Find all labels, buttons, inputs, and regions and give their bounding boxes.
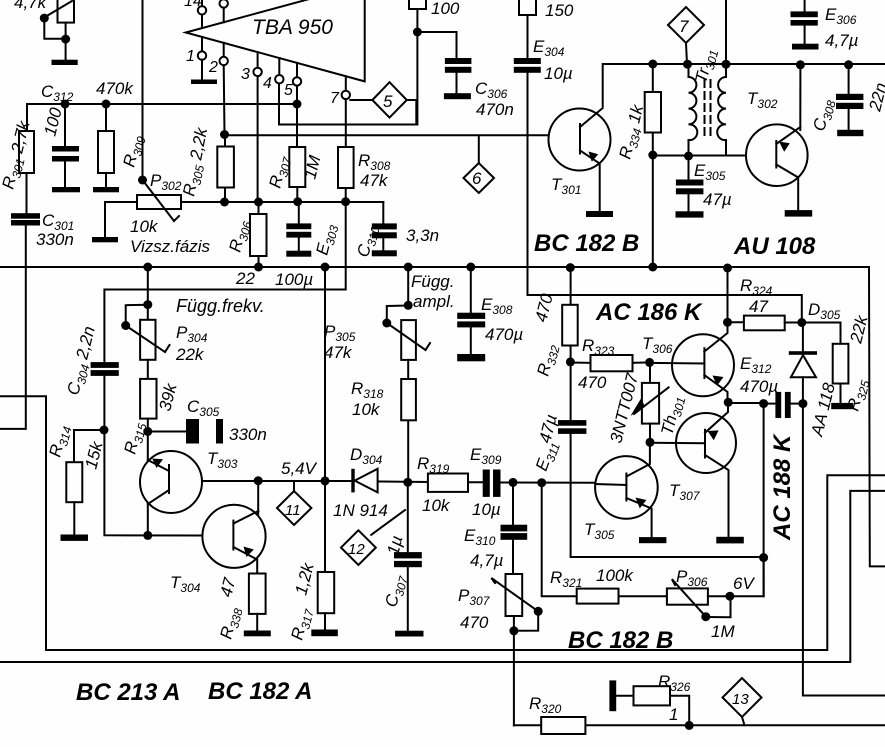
- node 6V junction: [759, 553, 768, 562]
- node C308 junction: [844, 60, 853, 69]
- IC pin 14: [201, 0, 203, 6]
- ground 4,7k pot: [52, 60, 78, 65]
- svg-text:1N 914: 1N 914: [333, 501, 388, 520]
- svg-text:ampl.: ampl.: [413, 292, 455, 311]
- transistor T303: [140, 451, 202, 513]
- svg-text:1: 1: [669, 705, 678, 724]
- resistor R324: [728, 321, 744, 323]
- ground R338: [244, 631, 271, 637]
- wire x=408 P305 branch drop to signal line: [407, 267, 409, 305]
- wire to T302 base: [689, 155, 747, 157]
- node D304 left junction: [321, 476, 330, 485]
- svg-text:3,3n: 3,3n: [406, 226, 439, 245]
- resistor R318: [407, 360, 409, 379]
- test point diamond 11: [293, 481, 295, 491]
- ground E308: [457, 354, 485, 361]
- svg-text:10µ: 10µ: [472, 500, 501, 519]
- resistor R319: [428, 474, 468, 492]
- wire x=325 bias drop: [324, 267, 326, 572]
- svg-text:5: 5: [383, 92, 393, 111]
- node pin5 junction: [293, 100, 302, 109]
- wire y=202 bias line P302 to C310: [180, 201, 383, 203]
- transistor T301: [549, 109, 611, 171]
- node R332 bottom junction: [566, 357, 575, 366]
- ground E305: [676, 211, 704, 217]
- IC pin 13: [220, 0, 228, 8]
- capacitor C307: [394, 552, 422, 558]
- potentiometer P306: [667, 588, 708, 604]
- potentiometer P305: [404, 301, 413, 310]
- wire E309 to R321 drop: [542, 483, 577, 597]
- wire E311 bottom to 6V node: [571, 434, 764, 557]
- svg-text:TBA 950: TBA 950: [252, 16, 333, 39]
- wire frame line A: [46, 475, 885, 650]
- node E305 junction: [684, 152, 693, 161]
- wire collector rail T301 y=64: [603, 64, 885, 106]
- transistor T306: [672, 334, 734, 396]
- node T302 collector junction: [796, 60, 805, 69]
- wire E310/P307 branch: [512, 482, 514, 524]
- terminal bar R326 input: [609, 680, 616, 711]
- node E311 branch junction: [537, 478, 546, 487]
- capacitor E305: [688, 156, 690, 180]
- resistor R309: [105, 104, 107, 131]
- wire C307 branch: [407, 482, 409, 552]
- node R319 left junction: [403, 478, 412, 487]
- wire C301 top to R301: [26, 173, 28, 213]
- svg-text:14: 14: [184, 0, 202, 10]
- resistor R321: [577, 589, 619, 604]
- potentiometer 4,7k top-left: [58, 0, 75, 23]
- ground T302 emitter: [785, 210, 813, 217]
- diode D304 1N914: [351, 469, 354, 493]
- node T303 emitter junction: [143, 531, 152, 540]
- test point diamond 12: [341, 530, 376, 565]
- svg-text:100µ: 100µ: [275, 270, 313, 289]
- capacitor C305: [148, 431, 186, 433]
- IC pin 1: [201, 37, 203, 51]
- node T303 base / T304 collector junction: [254, 476, 263, 485]
- node C312 junction: [61, 100, 70, 109]
- svg-text:150: 150: [545, 1, 574, 20]
- transformer Tr301 left winding: [688, 64, 690, 77]
- resistor R332: [570, 268, 572, 305]
- ground C306: [444, 93, 471, 99]
- wire supply line y=267: [0, 266, 869, 268]
- wire pin4 feedback box path: [279, 83, 416, 125]
- ground R314: [61, 535, 89, 541]
- svg-text:BC 182 B: BC 182 B: [534, 230, 639, 257]
- potentiometer P307: [506, 574, 523, 616]
- node Th301 bottom junction: [646, 438, 655, 447]
- wire oscillator signal line y=482: [169, 480, 352, 482]
- resistor R323: [570, 362, 590, 364]
- wire E304 drop to output rail: [528, 73, 802, 323]
- svg-text:AC 186 K: AC 186 K: [595, 299, 703, 326]
- wire T303 collector from R315: [147, 432, 149, 461]
- node right winding top junction: [722, 60, 731, 69]
- transformer Tr301 core: [704, 80, 706, 138]
- resistor R306: [258, 202, 260, 214]
- svg-text:47: 47: [749, 297, 768, 316]
- wire R320 line: [514, 724, 885, 726]
- capacitor E303: [298, 202, 300, 223]
- thermistor Th301 3NTT007: [649, 362, 651, 383]
- resistor R338: [249, 574, 266, 614]
- ground E303: [286, 251, 311, 257]
- capacitor C301: [11, 213, 40, 219]
- potentiometer P304: [147, 267, 149, 320]
- resistor 100 (top, clipped): [409, 0, 426, 9]
- resistor R334: [652, 64, 654, 92]
- transistor T305: [595, 456, 658, 519]
- wire R334 to E305/transformer: [653, 155, 689, 157]
- svg-text:AU 108: AU 108: [733, 233, 816, 260]
- capacitor E310: [501, 525, 528, 532]
- svg-text:5: 5: [284, 82, 293, 99]
- svg-text:1: 1: [186, 48, 195, 65]
- test point diamond 7: [668, 7, 704, 43]
- wire x=143 vertical to P302 wiper: [142, 0, 144, 180]
- node supply junctions on y=267: [143, 263, 152, 272]
- svg-text:470µ: 470µ: [485, 325, 523, 344]
- svg-text:330n: 330n: [36, 230, 74, 249]
- node R334 top junction: [648, 60, 657, 69]
- svg-text:10k: 10k: [352, 400, 381, 419]
- svg-text:4,7µ: 4,7µ: [470, 551, 504, 570]
- svg-text:BC 182 B: BC 182 B: [568, 627, 673, 654]
- svg-text:22k: 22k: [175, 345, 205, 364]
- resistor R320: [541, 717, 585, 734]
- svg-text:4,7µ: 4,7µ: [825, 31, 859, 50]
- transistor T304: [202, 505, 265, 568]
- resistor R305: [220, 130, 229, 139]
- svg-text:10k: 10k: [422, 496, 451, 515]
- svg-text:13: 13: [732, 691, 749, 708]
- ground T307 emitter: [716, 537, 744, 544]
- diode D305 AA118: [802, 323, 804, 353]
- ground E306: [792, 44, 819, 50]
- wire R334 junction to supply line: [652, 155, 654, 267]
- test point diamond 6: [478, 137, 480, 163]
- svg-text:AC 188 K: AC 188 K: [769, 433, 796, 541]
- resistor R325: [802, 323, 841, 344]
- ground cap 100: [52, 187, 80, 192]
- capacitor C308: [848, 65, 850, 94]
- wire frame line right E: [869, 267, 885, 566]
- ground R309: [93, 187, 119, 192]
- resistor 150 (top, clipped): [519, 0, 536, 15]
- node 470k junction: [102, 100, 111, 109]
- wire x=726 top feed: [725, 0, 727, 64]
- svg-text:Függ.frekv.: Függ.frekv.: [176, 296, 265, 316]
- svg-text:12: 12: [348, 541, 365, 558]
- capacitor C313 value 100: [64, 104, 66, 146]
- capacitor E309: [483, 470, 490, 497]
- node T306 base junction: [645, 358, 654, 367]
- potentiometer P302: [138, 176, 147, 185]
- transformer Tr301 right winding: [725, 64, 727, 77]
- wire T304 collector up: [257, 481, 259, 514]
- node y202 junctions: [220, 198, 229, 207]
- node R326/R320 junction: [685, 721, 694, 730]
- node C304/R314 junction: [100, 426, 109, 435]
- resistor R308: [338, 147, 354, 188]
- capacitor E312: [764, 403, 776, 405]
- svg-text:470: 470: [578, 373, 607, 392]
- wire R318 bottom to signal line: [407, 420, 409, 482]
- svg-text:2: 2: [208, 59, 218, 76]
- ground T301 emitter: [586, 211, 613, 217]
- svg-text:10µ: 10µ: [544, 64, 573, 83]
- svg-text:47k: 47k: [324, 343, 353, 362]
- node T306 collector / R324 junction: [723, 318, 732, 327]
- node E312 right / AA118 junction: [798, 399, 807, 408]
- node diamond7/winding junction: [683, 60, 692, 69]
- svg-text:470µ: 470µ: [740, 377, 778, 396]
- svg-text:4: 4: [263, 75, 272, 92]
- ground C307: [395, 631, 423, 637]
- IC pin 3: [257, 52, 259, 68]
- svg-text:Függ.: Függ.: [411, 272, 454, 291]
- svg-text:470k: 470k: [96, 79, 134, 98]
- capacitor E304: [514, 58, 541, 64]
- wire pin2/R305 to T301 base y=135.5: [225, 134, 549, 136]
- test point diamond 5: [372, 82, 406, 117]
- svg-text:6: 6: [472, 169, 482, 188]
- svg-text:330n: 330n: [229, 425, 267, 444]
- wire T303 emitter down: [147, 504, 149, 535]
- resistor R326: [616, 695, 633, 697]
- svg-text:100: 100: [431, 0, 460, 18]
- svg-text:10k: 10k: [130, 217, 159, 236]
- svg-text:47µ: 47µ: [703, 190, 732, 209]
- svg-text:470: 470: [460, 613, 489, 632]
- svg-text:BC 182 A: BC 182 A: [208, 678, 312, 705]
- svg-text:22: 22: [235, 269, 255, 288]
- resistor R315: [147, 360, 149, 379]
- wire R308 bottom to C304 top (sawtooth net): [104, 202, 345, 362]
- svg-text:100k: 100k: [596, 566, 634, 585]
- svg-text:1M: 1M: [711, 622, 735, 641]
- wire left input stub B to C301: [0, 225, 26, 429]
- IC pin 7: [345, 76, 347, 91]
- test point diamond 13: [723, 678, 762, 717]
- resistor R307: [289, 147, 305, 187]
- svg-text:11: 11: [285, 502, 301, 519]
- node E312 left junction: [724, 398, 733, 407]
- capacitor E308: [470, 267, 472, 313]
- svg-text:4,7k: 4,7k: [14, 0, 48, 12]
- ground bar pin 1: [191, 80, 217, 85]
- ground C308: [837, 130, 863, 136]
- svg-text:7: 7: [679, 17, 689, 36]
- ground C310: [372, 250, 397, 256]
- capacitor E311: [570, 362, 572, 420]
- wire output stub D305 net: [803, 404, 885, 696]
- ground T305 emitter: [639, 537, 666, 543]
- transistor T307: [676, 413, 736, 473]
- ground P302: [92, 237, 118, 242]
- op-amp/IC U1 TBA 950 triangle: [186, 0, 365, 81]
- wire frame line B: [0, 491, 885, 662]
- resistor R317: [318, 572, 335, 613]
- svg-text:470n: 470n: [476, 100, 514, 119]
- svg-text:47k: 47k: [360, 171, 389, 190]
- transistor T302: [746, 124, 808, 186]
- capacitor C310: [382, 202, 384, 223]
- ground R317: [311, 630, 338, 637]
- IC pin 5: [296, 63, 298, 77]
- capacitor C304: [91, 362, 119, 368]
- resistor R301: [19, 131, 34, 173]
- IC pin 2: [223, 43, 225, 57]
- node E309/E310 junction: [509, 478, 518, 487]
- wire left input stub A: [0, 396, 46, 650]
- wire 6V vertical: [763, 404, 765, 597]
- node R324 right / D305 junction: [797, 318, 806, 327]
- svg-text:BC 213 A: BC 213 A: [76, 679, 180, 706]
- svg-text:5,4V: 5,4V: [281, 459, 318, 478]
- svg-text:7: 7: [330, 90, 340, 107]
- capacitor C306: [417, 32, 456, 58]
- wire y=104 line (pin5 net): [27, 104, 297, 131]
- ground R325: [831, 403, 853, 409]
- svg-text:3: 3: [241, 66, 250, 83]
- node R315/C305 junction: [143, 427, 152, 436]
- svg-text:Vizsz.fázis: Vizsz.fázis: [130, 237, 210, 256]
- IC pin 4: [278, 58, 280, 75]
- wire C304 bottom to T303 emitter / T304 base: [104, 376, 202, 536]
- resistor R314: [74, 430, 104, 462]
- node R334 bottom junction: [648, 151, 657, 160]
- capacitor E306: [804, 0, 806, 11]
- node feed junction x417: [413, 28, 422, 37]
- svg-text:6V: 6V: [733, 574, 755, 593]
